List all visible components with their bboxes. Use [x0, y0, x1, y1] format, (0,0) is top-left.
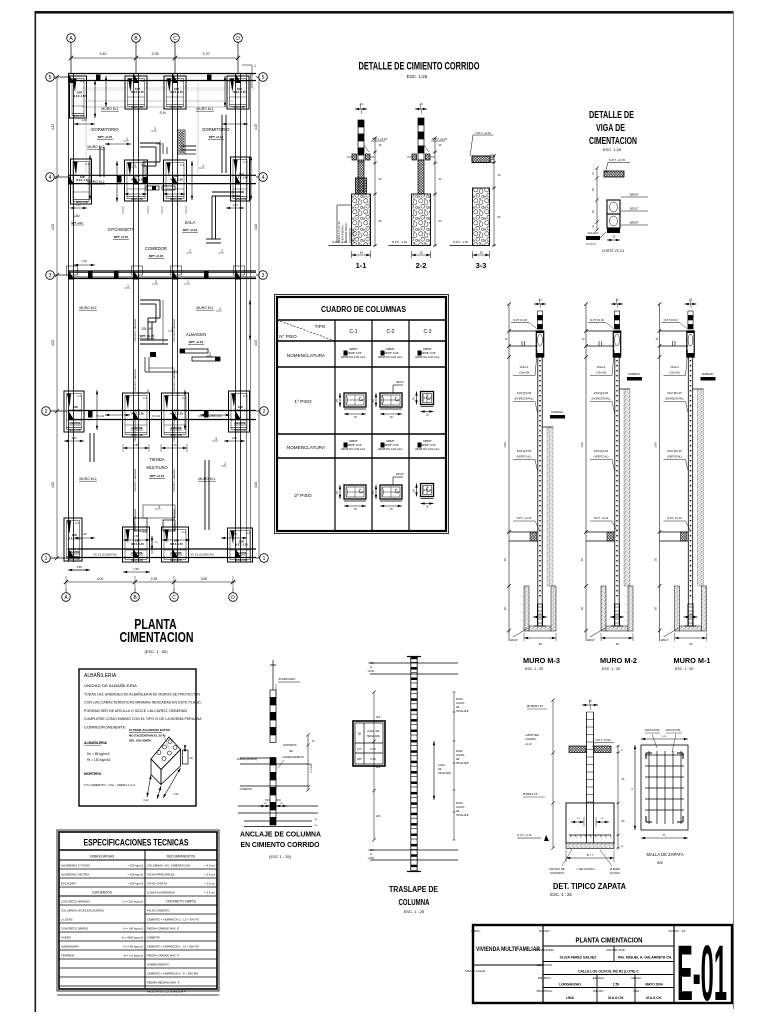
svg-text:1: 1 — [45, 556, 48, 562]
svg-text:CIMENTACION: CIMENTACION — [589, 136, 637, 147]
svg-text:AMARRE: AMARRE — [170, 426, 182, 430]
svg-text:DISTRITO :: DISTRITO : — [538, 976, 553, 980]
svg-text:N.F.Z.-1.50: N.F.Z.-1.50 — [235, 560, 247, 562]
svg-text:N.T.N. ≈1.10: N.T.N. ≈1.10 — [517, 833, 532, 837]
svg-text:MORTERO: MORTERO — [84, 772, 102, 776]
svg-text:VC-01 (0.25X0.40): VC-01 (0.25X0.40) — [93, 553, 116, 557]
svg-text:1: 1 — [134, 163, 136, 167]
svg-text:ACERO: ACERO — [61, 935, 72, 939]
svg-text:PIEDRA MEDIANA MAX. 4'': PIEDRA MEDIANA MAX. 4'' — [147, 980, 181, 984]
svg-text:SOBRE(cimiento): SOBRE(cimiento) — [237, 757, 258, 761]
svg-text:2: 2 — [263, 409, 266, 415]
svg-text:(VERTICAL): (VERTICAL) — [594, 455, 609, 459]
svg-text:UBICACION :: UBICACION : — [536, 963, 553, 967]
svg-text:CORRESPONDIENTE: CORRESPONDIENTE — [84, 726, 127, 730]
svg-text:2.25: 2.25 — [152, 52, 159, 56]
svg-text:E-01: E-01 — [677, 928, 727, 1017]
svg-text:ESFUERZOS: ESFUERZOS — [92, 890, 111, 894]
svg-text:VC-01: VC-01 — [152, 414, 160, 418]
svg-text:MURO M-2: MURO M-2 — [600, 656, 637, 665]
svg-text:VIVIENDA MULTIFAMILIAR: VIVIENDA MULTIFAMILIAR — [476, 946, 540, 953]
svg-text:y LOSAS: y LOSAS — [61, 917, 73, 921]
svg-text:OBRA :: OBRA : — [471, 929, 481, 933]
svg-text:PLANTA: PLANTA — [610, 871, 620, 875]
svg-text:2: 2 — [219, 307, 221, 311]
svg-text:.60: .60 — [538, 642, 542, 646]
svg-text:3.50: 3.50 — [201, 577, 208, 581]
svg-text:3: 3 — [215, 437, 217, 441]
svg-text:.60: .60 — [615, 642, 619, 646]
svg-text:NPT +0.15: NPT +0.15 — [98, 135, 113, 139]
svg-text:1-1: 1-1 — [356, 261, 367, 270]
svg-text:1.40: 1.40 — [81, 118, 87, 122]
svg-text:PIEDRA GRANDE MAX. 8'': PIEDRA GRANDE MAX. 8'' — [147, 953, 180, 957]
svg-text:N.F.C. -1.20: N.F.C. -1.20 — [392, 240, 407, 244]
svg-text:DEL VOLUMEN: DEL VOLUMEN — [129, 739, 151, 743]
svg-text:≈ 200 kg/m2: ≈ 200 kg/m2 — [128, 881, 144, 885]
svg-text:OLIVA PEREZ GALVEZ: OLIVA PEREZ GALVEZ — [560, 956, 597, 960]
svg-text:PROYECC. SARDINEL: PROYECC. SARDINEL — [173, 508, 176, 532]
svg-text:N.F.Z.-1.50: N.F.Z.-1.50 — [69, 409, 82, 412]
svg-text:N.F.Z.-1.50: N.F.Z.-1.50 — [131, 413, 144, 416]
svg-text:DORMITORIO: DORMITORIO — [202, 127, 230, 132]
svg-text:≈ 2.5 cm: ≈ 2.5 cm — [204, 881, 215, 885]
svg-text:C-1: C-1 — [77, 395, 82, 398]
svg-text:5: 5 — [49, 75, 52, 81]
svg-text:M.A.G.CH.: M.A.G.CH. — [646, 996, 662, 1000]
svg-text:ESC. 1 : 25: ESC. 1 : 25 — [404, 909, 425, 914]
svg-text:VIGAS PRINCIPALES: VIGAS PRINCIPALES — [147, 872, 175, 876]
svg-text:≈ 200 kg/m2: ≈ 200 kg/m2 — [128, 863, 144, 867]
svg-text:MURO M-1: MURO M-1 — [196, 306, 213, 310]
svg-text:DE: DE — [456, 706, 460, 709]
svg-text:LIMA: LIMA — [566, 996, 574, 1000]
svg-text:SS.HH: SS.HH — [142, 327, 153, 331]
svg-text:ESC. 1 : 25: ESC. 1 : 25 — [675, 667, 693, 671]
svg-text:2º PISO: 2º PISO — [294, 493, 311, 499]
svg-text:ZONA: ZONA — [456, 802, 463, 805]
svg-text:2.25: 2.25 — [151, 577, 158, 581]
svg-text:TRASLAPE: TRASLAPE — [456, 710, 469, 713]
svg-text:VALIDA: VALIDA — [456, 754, 465, 757]
svg-text:(.12): (.12) — [188, 757, 193, 760]
svg-text:PROPIETARIO :: PROPIETARIO : — [535, 948, 556, 952]
svg-text:3Ø5/8'': 3Ø5/8'' — [629, 193, 639, 197]
svg-text:LONG. DE: LONG. DE — [367, 729, 380, 733]
svg-text:4.15: 4.15 — [51, 124, 55, 130]
svg-text:( VER PLANTA ): ( VER PLANTA ) — [577, 867, 596, 871]
svg-text:LOSA: LOSA — [368, 857, 375, 860]
svg-text:Ø Ø3/8 0.15: Ø Ø3/8 0.15 — [523, 792, 538, 796]
svg-text:f'b = 130 kg/cm2: f'b = 130 kg/cm2 — [87, 758, 111, 762]
svg-text:2: 2 — [224, 462, 226, 466]
svg-text:4: 4 — [262, 175, 265, 181]
svg-text:2: 2 — [45, 409, 48, 415]
svg-text:ALBAÑILERIA: ALBAÑILERIA — [84, 672, 117, 679]
svg-text:FALSO CIMIENTO: FALSO CIMIENTO — [147, 908, 170, 912]
svg-text:N.F.Z.-1.50: N.F.Z.-1.50 — [234, 430, 246, 432]
svg-text:2: 2 — [221, 249, 223, 253]
svg-text:CIMIENTO: CIMIENTO — [147, 935, 160, 939]
svg-text:4.00: 4.00 — [97, 577, 104, 581]
svg-text:N.F.C. -1.20: N.F.C. -1.20 — [453, 240, 468, 244]
svg-text:N.F.Z.-1.50: N.F.Z.-1.50 — [170, 107, 182, 109]
svg-text:f'c = 140 kg/cm2: f'c = 140 kg/cm2 — [123, 926, 144, 930]
svg-text:LONG.: LONG. — [438, 764, 446, 767]
svg-text:4: 4 — [49, 175, 52, 181]
svg-text:COMEDOR: COMEDOR — [145, 246, 167, 251]
svg-text:B: B — [663, 833, 665, 837]
svg-text:1:50: 1:50 — [613, 983, 620, 987]
svg-text:PROYECTO/E:: PROYECTO/E: — [606, 948, 625, 952]
svg-text:VIGA-1: VIGA-1 — [597, 365, 606, 369]
svg-text:PROYECC. SARDINEL: PROYECC. SARDINEL — [134, 508, 137, 532]
svg-text:4.05: 4.05 — [51, 340, 55, 346]
svg-text:TRASLAPE: TRASLAPE — [438, 772, 451, 775]
svg-text:(.25x.40): (.25x.40) — [596, 371, 607, 375]
svg-text:ESC. 1 : 25: ESC. 1 : 25 — [525, 667, 543, 671]
svg-text:N.F.Z.-1.50: N.F.Z.-1.50 — [233, 107, 245, 109]
svg-text:MURO M-2: MURO M-2 — [79, 306, 96, 310]
svg-text:#1/2"@0.25: #1/2"@0.25 — [594, 449, 609, 453]
svg-text:+ 30% PIEDRA: + 30% PIEDRA — [341, 225, 345, 243]
svg-text:h ≥ 0.60: h ≥ 0.60 — [310, 763, 313, 772]
svg-text:CONCRETO ARMADO: CONCRETO ARMADO — [61, 899, 91, 903]
svg-text:O: O — [370, 666, 372, 669]
svg-text:C: C — [172, 595, 176, 601]
svg-text:1: 1 — [127, 284, 129, 288]
svg-text:CONCRETO SIMPLE: CONCRETO SIMPLE — [61, 926, 88, 930]
svg-text:TRASLAPE: TRASLAPE — [456, 762, 469, 765]
svg-text:PLANO :: PLANO : — [539, 929, 551, 933]
svg-text:≈ 4.0 cm: ≈ 4.0 cm — [204, 863, 215, 867]
svg-text:2.60: 2.60 — [580, 442, 584, 448]
svg-text:ESPECIFICACIONES TECNICAS: ESPECIFICACIONES TECNICAS — [84, 838, 189, 848]
svg-text:4Ø3/8',Rto 0.20 c/ext.: 4Ø3/8',Rto 0.20 c/ext. — [415, 355, 440, 359]
svg-text:VIGA-1: VIGA-1 — [520, 365, 529, 369]
svg-text:1: 1 — [126, 137, 128, 141]
svg-text:MURO M-1: MURO M-1 — [198, 477, 215, 481]
svg-text:LOSA: LOSA — [368, 670, 375, 673]
svg-text:N.F.Z.-1.50: N.F.Z.-1.50 — [235, 177, 248, 180]
svg-text:SALA: SALA — [185, 220, 196, 225]
svg-text:1.00: 1.00 — [232, 203, 238, 207]
svg-text:(ESC 1 : 25): (ESC 1 : 25) — [269, 854, 292, 859]
svg-text:H/3: H/3 — [376, 715, 381, 719]
svg-text:ALIGERADO AZOTEA: ALIGERADO AZOTEA — [61, 872, 89, 876]
svg-text:ESCALERA: ESCALERA — [61, 881, 76, 885]
svg-text:fy = 4200 kg/cm2: fy = 4200 kg/cm2 — [122, 935, 144, 939]
svg-text:(ESC. 1 : 50): (ESC. 1 : 50) — [144, 649, 168, 654]
svg-text:4: 4 — [158, 505, 160, 509]
svg-text:C-1: C-1 — [85, 163, 90, 166]
svg-text:AMARRE: AMARRE — [234, 421, 246, 425]
svg-text:CEMENTO + HORMIGON 1 : 10 + 3: CEMENTO + HORMIGON 1 : 10 + 30% PG — [147, 944, 199, 948]
svg-text:A: A — [630, 788, 634, 790]
svg-text:4.00: 4.00 — [254, 482, 258, 488]
svg-text:FECHA :: FECHA : — [632, 976, 643, 980]
svg-text:NPT +0.15: NPT +0.15 — [149, 254, 164, 258]
svg-text:PIEDRA GRANDE MAX. 8'': PIEDRA GRANDE MAX. 8'' — [147, 926, 180, 930]
svg-text:DE: DE — [438, 768, 442, 771]
svg-text:3/8'': 3/8'' — [357, 757, 362, 761]
svg-text:N.P.T. +0.10: N.P.T. +0.10 — [594, 516, 609, 520]
svg-text:LAV.: LAV. — [74, 214, 81, 218]
svg-text:1: 1 — [263, 556, 266, 562]
svg-text:SOBRECARGAS: SOBRECARGAS — [90, 855, 115, 859]
svg-text:N.P.T.±0.00: N.P.T.±0.00 — [513, 318, 527, 322]
svg-text:3: 3 — [155, 280, 157, 284]
svg-text:4.15: 4.15 — [254, 124, 258, 130]
svg-text:MURO M-1: MURO M-1 — [101, 107, 118, 111]
svg-text:VALIDA: VALIDA — [456, 702, 465, 705]
svg-text:1: 1 — [171, 327, 173, 331]
svg-text:AMARRE: AMARRE — [69, 421, 81, 425]
svg-text:#1/2"@0.25: #1/2"@0.25 — [594, 391, 609, 395]
svg-text:PODRAN SER DE ARCILLA O SILICE: PODRAN SER DE ARCILLA O SILICE CALCAREO,… — [84, 709, 187, 713]
svg-text:1: 1 — [202, 164, 204, 168]
svg-text:≈ 100 kg/m2: ≈ 100 kg/m2 — [128, 872, 144, 876]
svg-text:4Ø1/2'': 4Ø1/2'' — [660, 638, 669, 642]
svg-text:(2Ø3/8'':0.05: (2Ø3/8'':0.05 — [420, 443, 436, 447]
svg-text:VIGA: VIGA — [368, 662, 374, 665]
svg-text:NOMENCLATURA: NOMENCLATURA — [287, 445, 326, 450]
svg-text:2Ø1/2'': 2Ø1/2'' — [396, 472, 405, 476]
svg-text:(HORIZONTAL): (HORIZONTAL) — [592, 397, 611, 401]
svg-text:UNIDAD DE ALBAÑILERIA: UNIDAD DE ALBAÑILERIA — [84, 683, 138, 688]
svg-text:N.P.T. +0.15: N.P.T. +0.15 — [609, 158, 626, 162]
svg-text:ALIGERADO 1º PISOS: ALIGERADO 1º PISOS — [61, 863, 90, 867]
svg-text:1.00: 1.00 — [231, 532, 237, 536]
svg-text:N.P.T. +0.10: N.P.T. +0.10 — [667, 516, 682, 520]
svg-text:C-1: C-1 — [180, 164, 185, 167]
svg-text:MULTIUSO: MULTIUSO — [146, 465, 168, 470]
svg-text:FALSO PISO 1:12, ESPESOR 4'': FALSO PISO 1:12, ESPESOR 4'' — [147, 989, 187, 993]
svg-text:SI TIENE AGUJEROS ESTOS: SI TIENE AGUJEROS ESTOS — [129, 728, 170, 732]
svg-text:2: 2 — [209, 352, 211, 356]
svg-text:ESTRIBOS: ESTRIBOS — [283, 743, 296, 747]
svg-text:DORMITORIO: DORMITORIO — [91, 127, 119, 132]
svg-text:MEZCLA C:H 1:10: MEZCLA C:H 1:10 — [337, 221, 341, 243]
svg-text:1/2'': 1/2'' — [357, 747, 362, 751]
svg-text:N.F.Z.-1.50: N.F.Z.-1.50 — [73, 95, 86, 98]
svg-text:4Ø3/8',Rto 0.20 c/ext.: 4Ø3/8',Rto 0.20 c/ext. — [378, 447, 403, 451]
svg-text:1.50: 1.50 — [133, 567, 139, 571]
svg-text:1.00: 1.00 — [71, 436, 77, 440]
svg-text:1.40: 1.40 — [81, 259, 87, 263]
svg-text:(2Ø3/8'':0.05: (2Ø3/8'':0.05 — [346, 351, 362, 355]
svg-text:VALIDA: VALIDA — [456, 806, 465, 809]
svg-text:COLUMNA: COLUMNA — [399, 898, 430, 907]
svg-text:0.45: 0.45 — [370, 757, 376, 761]
svg-text:O: O — [370, 853, 372, 856]
svg-text:(2Ø3/8'':0.05: (2Ø3/8'':0.05 — [346, 443, 362, 447]
svg-text:1.50: 1.50 — [76, 565, 82, 569]
svg-text:3: 3 — [262, 273, 265, 279]
svg-text:.60: .60 — [359, 251, 363, 255]
svg-text:(2Ø3/8'':0.05: (2Ø3/8'':0.05 — [383, 351, 399, 355]
svg-text:N.P.T. +0.15: N.P.T. +0.15 — [475, 131, 491, 135]
svg-text:ING. MIGUEL A. GALARRETA CH.: ING. MIGUEL A. GALARRETA CH. — [618, 956, 672, 960]
svg-text:DETALLE DE: DETALLE DE — [589, 110, 634, 121]
svg-text:PROYECC. SARDINEL: PROYECC. SARDINEL — [173, 418, 176, 442]
svg-text:≈ 2.5 cm: ≈ 2.5 cm — [204, 890, 215, 894]
svg-text:DE: DE — [456, 810, 460, 813]
svg-text:NPT +0.15: NPT +0.15 — [150, 474, 165, 478]
svg-text:KITCHENETT: KITCHENETT — [108, 227, 135, 232]
svg-text:VER PLANTA: VER PLANTA — [666, 729, 681, 732]
svg-text:N.P.T. +0.10: N.P.T. +0.10 — [517, 516, 532, 520]
svg-text:1º PISO: 1º PISO — [294, 399, 311, 405]
svg-text:ANCLAJE DE COLUMNA: ANCLAJE DE COLUMNA — [240, 830, 321, 839]
svg-text:+0.10: +0.10 — [525, 742, 532, 746]
svg-text:4 Ø5/8 VER: 4 Ø5/8 VER — [525, 733, 539, 737]
svg-text:DE: DE — [289, 749, 293, 753]
svg-text:2Ø1/2'': 2Ø1/2'' — [396, 380, 405, 384]
svg-text:TERRENO: TERRENO — [61, 953, 75, 957]
svg-text:CIMIENTO: CIMIENTO — [240, 787, 253, 791]
svg-text:1.50: 1.50 — [75, 203, 81, 207]
svg-text:C-1: C-1 — [243, 395, 248, 398]
svg-text:N.F.Z.-1.50: N.F.Z.-1.50 — [131, 199, 143, 201]
svg-text:ALBAÑILERIA: ALBAÑILERIA — [84, 740, 108, 745]
svg-text:f'=C CEMENTO : CAL : ARENA 1: f'=C CEMENTO : CAL : ARENA 1:1:4 — [84, 783, 135, 787]
svg-text:DET. TIPICO ZAPATA: DET. TIPICO ZAPATA — [553, 881, 626, 891]
svg-text:0.40: 0.40 — [370, 747, 376, 751]
svg-text:2: 2 — [189, 249, 191, 253]
svg-text:C-1: C-1 — [80, 80, 85, 83]
svg-text:D: D — [231, 595, 235, 601]
svg-text:VIGA-1: VIGA-1 — [670, 365, 679, 369]
svg-text:0.14: 0.14 — [144, 799, 149, 802]
svg-text:Ø4 Ø5/8´0.20: Ø4 Ø5/8´0.20 — [527, 704, 543, 708]
svg-text:.50: .50 — [419, 251, 423, 255]
svg-text:TRASLAPE: TRASLAPE — [456, 814, 469, 817]
svg-text:NOMENCLATURA: NOMENCLATURA — [287, 353, 326, 358]
svg-text:CUMPLIRSE COMO MINIMO CON EL T: CUMPLIRSE COMO MINIMO CON EL TIPO IV DE … — [84, 717, 202, 721]
svg-text:ALBAÑILERIA: ALBAÑILERIA — [61, 943, 79, 948]
svg-text:TODAS LAS UNIDADES DE ALBAÑILE: TODAS LAS UNIDADES DE ALBAÑILERIA DE MUR… — [84, 691, 200, 696]
svg-text:COLUMNAS, VIG. CIMENTACION: COLUMNAS, VIG. CIMENTACION — [147, 863, 190, 867]
svg-text:1.00: 1.00 — [231, 436, 237, 440]
svg-text:C: C — [173, 36, 177, 42]
svg-text:1.00: 1.00 — [81, 532, 87, 536]
svg-text:4Ø1/2'': 4Ø1/2'' — [510, 638, 519, 642]
svg-text:N.F.Z.-1.50: N.F.Z.-1.50 — [235, 543, 248, 546]
svg-text:N.F.Z.-1.50: N.F.Z.-1.50 — [170, 91, 183, 94]
svg-text:N.P.T. ±0.00: N.P.T. ±0.00 — [595, 738, 610, 742]
svg-text:N.F.Z.-1.50: N.F.Z.-1.50 — [170, 413, 183, 416]
svg-text:D: D — [236, 36, 240, 42]
svg-text:(2Ø3/8'':0.05: (2Ø3/8'':0.05 — [420, 351, 436, 355]
svg-text:MALLA DE ZAPATA: MALLA DE ZAPATA — [647, 852, 684, 857]
svg-text:N.P.T.±0.00: N.P.T.±0.00 — [664, 318, 678, 322]
svg-text:NPT +0.15: NPT +0.15 — [209, 135, 224, 139]
svg-text:3: 3 — [159, 140, 161, 144]
svg-text:TIENDA: TIENDA — [149, 457, 165, 462]
svg-text:f'm = 65 kg/cm2: f'm = 65 kg/cm2 — [123, 944, 143, 948]
svg-text:ESC. 1 : 25: ESC. 1 : 25 — [602, 667, 620, 671]
svg-text:3-3: 3-3 — [476, 261, 487, 270]
svg-text:CORTE VC-01: CORTE VC-01 — [602, 249, 624, 253]
svg-text:SOLADO DE: SOLADO DE — [549, 867, 564, 871]
svg-text:N.F.Z.-1.50: N.F.Z.-1.50 — [170, 435, 182, 437]
svg-text:CEMENTO + HORMIGON 1 : 12 + 7: CEMENTO + HORMIGON 1 : 12 + 70% PG — [147, 917, 199, 921]
svg-text:LOSAS ALIGERADAS: LOSAS ALIGERADAS — [147, 890, 175, 894]
svg-text:TERRENO: TERRENO — [702, 373, 714, 376]
svg-text:1.50: 1.50 — [133, 534, 139, 538]
svg-text:AMARRE: AMARRE — [131, 426, 143, 430]
svg-text:VIGAS CHATAS: VIGAS CHATAS — [147, 881, 167, 885]
svg-text:4: 4 — [147, 389, 149, 393]
svg-text:TRASLAPE: TRASLAPE — [366, 734, 380, 738]
svg-text:PROYECC. SARDINEL: PROYECC. SARDINEL — [134, 418, 137, 442]
svg-text:CALLE LOS OLIVOS, MZ R1 (LOTE): CALLE LOS OLIVOS, MZ R1 (LOTE) C — [578, 970, 639, 974]
svg-text:TRASLAPE DE: TRASLAPE DE — [389, 885, 438, 894]
svg-text:C-2: C-2 — [386, 329, 394, 335]
svg-text:4Ø3/8',Rto 0.20 c/ext.: 4Ø3/8',Rto 0.20 c/ext. — [378, 355, 403, 359]
svg-text:CAD :: CAD : — [633, 989, 641, 993]
svg-text:C-1: C-1 — [243, 161, 248, 164]
svg-text:GRANDE MAX 8: GRANDE MAX 8 — [344, 223, 348, 243]
svg-text:H/3: H/3 — [376, 814, 381, 818]
svg-text:4.00: 4.00 — [254, 224, 258, 230]
svg-text:CICLOPEO: CICLOPEO — [351, 230, 355, 243]
svg-text:MURO M-1: MURO M-1 — [674, 656, 712, 665]
svg-text:ESC. 1:25: ESC. 1:25 — [407, 74, 428, 79]
svg-text:C-1: C-1 — [143, 397, 148, 400]
svg-text:DIBUJO :: DIBUJO : — [593, 989, 605, 993]
svg-text:AMARRE: AMARRE — [170, 551, 182, 555]
svg-text:NPT +0.15: NPT +0.15 — [140, 334, 155, 338]
svg-text:DETALLE DE CIMIENTO CORRIDO: DETALLE DE CIMIENTO CORRIDO — [359, 61, 480, 73]
svg-text:.15: .15 — [359, 102, 363, 106]
svg-text:CONCRETO SIMPLE: CONCRETO SIMPLE — [166, 899, 197, 903]
svg-text:N.F.Z.-1.50: N.F.Z.-1.50 — [68, 559, 80, 561]
svg-text:VIGA: VIGA — [368, 849, 374, 852]
svg-text:C-1: C-1 — [182, 397, 187, 400]
svg-text:NPT +0.15: NPT +0.15 — [183, 228, 198, 232]
svg-text:ESCALA :: ESCALA : — [593, 976, 606, 980]
svg-text:CUADRO DE COLUMNAS: CUADRO DE COLUMNAS — [321, 304, 406, 314]
svg-text:ZONA: ZONA — [456, 698, 463, 701]
svg-text:CON LAS CARACTERISTICAS MINIMA: CON LAS CARACTERISTICAS MINIMAS INDICADA… — [84, 701, 202, 705]
svg-text:.50: .50 — [479, 251, 483, 255]
svg-text:AMARRE: AMARRE — [235, 551, 247, 555]
svg-text:2.60: 2.60 — [503, 442, 507, 448]
svg-text:#1/2"@0.25: #1/2"@0.25 — [667, 449, 682, 453]
svg-text:MURO M-3: MURO M-3 — [523, 656, 560, 665]
svg-text:ESC. 1:25: ESC. 1:25 — [603, 147, 622, 152]
svg-text:1.85: 1.85 — [133, 443, 139, 447]
svg-text:VC-01 (0.25X0.40): VC-01 (0.25X0.40) — [190, 553, 213, 557]
svg-text:5: 5 — [262, 75, 265, 81]
svg-text:4Ø1/2'': 4Ø1/2'' — [587, 638, 596, 642]
svg-text:PLANTA CIMENTACION: PLANTA CIMENTACION — [576, 936, 643, 945]
svg-text:PROYECC. SARDINEL: PROYECC. SARDINEL — [134, 318, 137, 342]
svg-text:CONCRETO: CONCRETO — [348, 228, 352, 243]
svg-text:1: 1 — [254, 64, 256, 68]
svg-text:3Ø5/8'': 3Ø5/8'' — [629, 221, 639, 225]
svg-text:DE: DE — [456, 758, 460, 761]
svg-text:#1/2"@0.25: #1/2"@0.25 — [517, 449, 532, 453]
svg-text:N.F.Z.-1.50: N.F.Z.-1.50 — [170, 543, 183, 546]
svg-text:COLUMNAS,VIGAS,ESCALERAS: COLUMNAS,VIGAS,ESCALERAS — [61, 908, 104, 912]
svg-text:N.F.Z.-1.50: N.F.Z.-1.50 — [131, 91, 144, 94]
svg-text:C-1: C-1 — [143, 531, 148, 534]
svg-text:≈ 2.5 cm: ≈ 2.5 cm — [204, 872, 215, 876]
svg-text:MURO M-2: MURO M-2 — [79, 477, 96, 481]
